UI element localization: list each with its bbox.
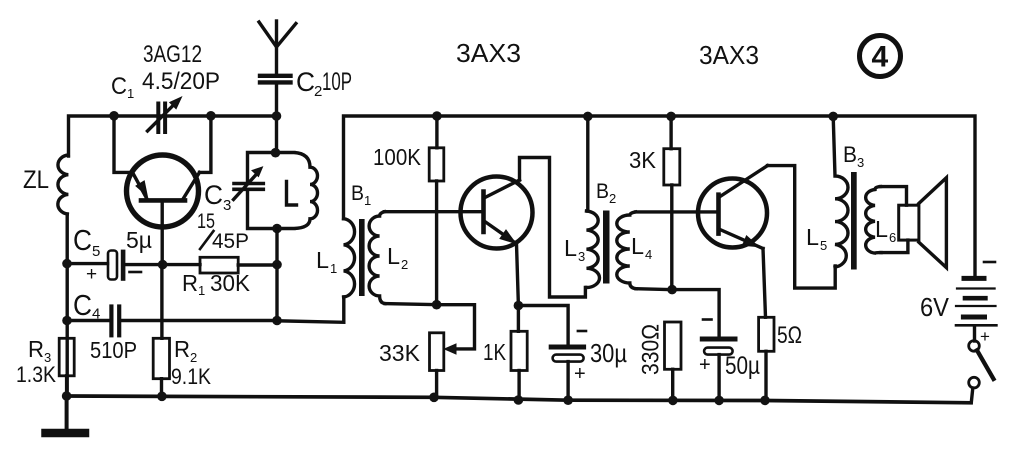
node rail L3 xyxy=(583,112,593,122)
node rail 100K xyxy=(432,111,442,121)
svg-text:R: R xyxy=(182,270,198,296)
antenna xyxy=(259,21,296,74)
label L3 xyxy=(564,235,585,264)
wire bottom rail xyxy=(67,396,971,403)
label C4 xyxy=(73,290,100,323)
wire tank bottom down xyxy=(275,229,278,321)
transformer B2 winding L3 xyxy=(587,116,600,287)
transformer B3 winding L5 xyxy=(833,116,848,267)
svg-text:+: + xyxy=(699,354,711,376)
switch xyxy=(969,341,994,403)
svg-text:L: L xyxy=(316,247,329,273)
svg-text:L: L xyxy=(387,243,400,269)
transformer B1 winding L2 xyxy=(369,212,385,304)
capacitor 30u xyxy=(518,306,583,401)
label C5 xyxy=(73,225,100,260)
svg-text:1K: 1K xyxy=(483,339,507,365)
svg-text:3AX3: 3AX3 xyxy=(456,38,521,68)
svg-text:+: + xyxy=(574,363,586,385)
resistor 330 xyxy=(665,322,682,400)
svg-text:L: L xyxy=(806,224,819,250)
wire L1 bottom lead xyxy=(277,297,344,322)
node rail 1K xyxy=(514,395,524,405)
wire L6 to speaker top xyxy=(881,187,907,206)
label L4 xyxy=(631,233,652,262)
label minus C5 xyxy=(130,271,142,274)
wire Q3 collector to L5 bottom xyxy=(768,166,836,289)
ground xyxy=(46,396,86,433)
svg-text:4: 4 xyxy=(645,247,652,262)
svg-text:+: + xyxy=(86,264,97,285)
node rail-C1 left xyxy=(109,111,119,121)
battery 6V xyxy=(956,278,996,341)
label minus 50u xyxy=(703,318,712,321)
wire Q2 emitter down xyxy=(517,244,519,331)
svg-text:C: C xyxy=(296,67,315,97)
svg-text:1.3K: 1.3K xyxy=(16,362,56,387)
svg-text:L: L xyxy=(875,216,888,242)
label R1 30K xyxy=(182,270,251,298)
svg-text:6V: 6V xyxy=(920,292,950,322)
svg-text:1: 1 xyxy=(127,86,134,101)
label 15/45P xyxy=(197,210,249,253)
transformer B1 core xyxy=(359,219,365,296)
node divider xyxy=(432,300,442,310)
node rail L5 xyxy=(828,112,838,122)
node R1 right xyxy=(272,260,282,270)
svg-text:L: L xyxy=(564,235,577,261)
wire right rail with L1 top lead xyxy=(344,116,976,276)
svg-text:2: 2 xyxy=(401,257,408,272)
svg-text:C: C xyxy=(73,225,92,257)
svg-text:50µ: 50µ xyxy=(725,352,760,380)
node tank bottom xyxy=(272,224,282,234)
svg-text:5Ω: 5Ω xyxy=(777,322,802,349)
svg-text:3K: 3K xyxy=(629,147,657,173)
label L5 xyxy=(806,224,827,253)
svg-text:1: 1 xyxy=(198,283,205,298)
svg-text:4.5/20P: 4.5/20P xyxy=(142,68,220,95)
wire Q2 collector to L3 bottom xyxy=(520,158,586,298)
slash of 15/45P xyxy=(200,231,214,249)
svg-text:3: 3 xyxy=(578,249,585,264)
label L1 xyxy=(316,247,337,276)
label L6 xyxy=(875,216,896,245)
label B1 xyxy=(351,182,371,208)
node rail 3K xyxy=(666,112,676,122)
resistor 100K xyxy=(429,116,444,305)
svg-text:5µ: 5µ xyxy=(126,227,152,253)
node rail-C1 right xyxy=(206,111,216,121)
node C4 left xyxy=(62,316,72,326)
svg-text:30µ: 30µ xyxy=(590,338,627,368)
label minus battery xyxy=(984,261,995,264)
wire Q1 emitter feed xyxy=(114,116,132,172)
node rail 33K xyxy=(429,393,439,403)
svg-text:100K: 100K xyxy=(373,144,422,170)
wire L4 bottom to 330 node xyxy=(636,287,672,291)
svg-text:ZL: ZL xyxy=(23,166,49,194)
svg-text:3AG12: 3AG12 xyxy=(143,41,202,68)
svg-text:R: R xyxy=(174,336,190,362)
tank circuit outline with coil L xyxy=(248,153,318,229)
label B3 xyxy=(843,142,864,170)
label B2 xyxy=(596,180,616,206)
speaker cone xyxy=(919,178,947,268)
node rail 330 xyxy=(668,396,678,406)
resistor R3 xyxy=(59,338,74,396)
transformer B1 winding L1 xyxy=(344,219,355,297)
wire antenna to rail xyxy=(275,85,278,153)
node rail R2 xyxy=(157,392,167,402)
node rail-antenna xyxy=(272,111,282,121)
svg-text:B: B xyxy=(596,180,609,203)
svg-text:1: 1 xyxy=(364,193,371,208)
transistor Q3 xyxy=(698,166,768,249)
wire Q1 collector to rail xyxy=(200,116,211,172)
resistor R2 xyxy=(153,265,169,396)
transistor Q1 xyxy=(127,155,200,227)
node rail 5ohm xyxy=(760,396,770,406)
svg-text:10P: 10P xyxy=(322,68,352,96)
svg-text:C: C xyxy=(73,290,92,322)
resistor R1 xyxy=(163,257,277,273)
svg-text:R: R xyxy=(28,336,44,362)
node base-C5 xyxy=(158,260,168,270)
resistor 1K xyxy=(511,331,527,400)
label minus 30u xyxy=(578,330,586,333)
node rail 50u xyxy=(714,396,724,406)
capacitor C1 trimmer xyxy=(148,98,182,133)
wire L4 to Q3 base xyxy=(636,210,717,213)
wire L6 to speaker bottom xyxy=(881,240,908,253)
resistor 5 ohm xyxy=(759,317,774,400)
transistor Q2 xyxy=(461,177,533,249)
svg-text:4: 4 xyxy=(872,41,889,74)
svg-text:3: 3 xyxy=(857,155,864,170)
svg-text:510P: 510P xyxy=(90,337,137,363)
transformer B2 winding L4 xyxy=(617,212,636,289)
svg-text:B: B xyxy=(351,182,364,205)
svg-text:9.1K: 9.1K xyxy=(171,364,211,389)
node emitter 30u xyxy=(514,301,524,311)
label R2 xyxy=(174,336,197,365)
svg-text:30K: 30K xyxy=(210,270,251,296)
node tank top xyxy=(271,148,281,158)
label R3 xyxy=(28,336,51,365)
svg-text:3AX3: 3AX3 xyxy=(699,40,759,70)
resistor 33K adjustable xyxy=(430,305,475,398)
svg-text:C: C xyxy=(204,180,223,210)
svg-text:5: 5 xyxy=(92,243,100,260)
svg-text:L: L xyxy=(631,233,644,259)
svg-text:+: + xyxy=(980,327,990,346)
svg-text:2: 2 xyxy=(190,350,197,365)
capacitor C5 xyxy=(67,250,163,281)
node C5 left xyxy=(62,259,72,269)
svg-text:33K: 33K xyxy=(379,340,421,366)
label C3 xyxy=(204,180,231,214)
transformer B3 winding L6 xyxy=(866,187,881,254)
wire Q3 emitter down xyxy=(763,249,766,318)
node 330 xyxy=(667,285,677,295)
label C1 xyxy=(111,73,134,101)
node rail 30u xyxy=(563,395,573,405)
svg-text:3: 3 xyxy=(223,197,231,214)
label C2 10P xyxy=(296,67,352,100)
label L tank xyxy=(287,182,297,206)
coil ZL xyxy=(58,155,68,396)
capacitor C3 trimmer xyxy=(234,167,264,200)
svg-text:C: C xyxy=(111,73,127,100)
svg-text:5: 5 xyxy=(820,238,827,253)
transformer B2 core xyxy=(603,211,610,284)
wire L2 bottom to divider node xyxy=(385,304,437,305)
transformer B3 core xyxy=(851,172,857,270)
svg-text:45P: 45P xyxy=(212,230,249,253)
capacitor C2 xyxy=(260,76,291,83)
svg-text:1: 1 xyxy=(330,261,337,276)
label L2 xyxy=(387,243,408,272)
wire top-left rail xyxy=(69,116,277,156)
svg-text:B: B xyxy=(843,142,857,167)
speaker driver xyxy=(899,205,919,240)
svg-text:2: 2 xyxy=(609,191,616,206)
node rail R3 xyxy=(62,391,72,401)
wire L2 to Q2 base xyxy=(385,210,482,213)
wire Q1 base down xyxy=(160,203,163,265)
capacitor 50u xyxy=(672,290,735,401)
label circled 4 xyxy=(860,36,901,77)
node C4-L1 xyxy=(272,316,282,326)
capacitor C4 xyxy=(67,307,277,336)
resistor 3K xyxy=(664,116,680,289)
svg-text:330Ω: 330Ω xyxy=(638,324,665,375)
svg-text:6: 6 xyxy=(889,230,896,245)
